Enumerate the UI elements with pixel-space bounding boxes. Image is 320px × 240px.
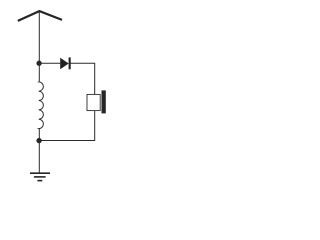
coil loops (39, 81, 44, 129)
wire antenna stem (38, 12, 40, 64)
wire node A to coil (38, 63, 40, 81)
wire coil to node B (38, 129, 40, 141)
node A (36, 61, 41, 66)
wire earphone bottom to node B (39, 111, 94, 141)
wire node A to diode (39, 62, 60, 64)
inductor L1 (39, 63, 44, 140)
node B (36, 138, 41, 143)
ground (30, 173, 50, 180)
diode D1 (60, 57, 70, 69)
wire node B to ground (38, 141, 40, 173)
earphone (crystal earpiece) (87, 90, 106, 113)
wire diode to right corner and down (71, 63, 95, 94)
antenna (18, 11, 62, 21)
